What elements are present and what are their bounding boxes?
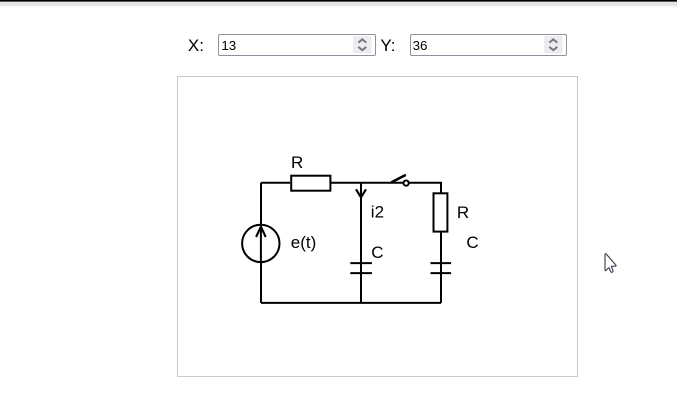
X input spinner	[353, 36, 372, 54]
wire top horizontal to right corner	[330, 182, 442, 184]
wire left branch lower	[260, 262, 262, 303]
svg-text:R: R	[457, 203, 469, 222]
svg-text:R: R	[291, 153, 303, 172]
label Y:	[380, 37, 395, 54]
source U1 circle e(t)	[242, 225, 279, 262]
svg-text:C: C	[466, 233, 478, 252]
Y number input	[410, 34, 567, 56]
svg-text:i2: i2	[371, 203, 384, 222]
wire right branch upper	[440, 183, 442, 194]
switch S1 lever	[391, 175, 406, 183]
wire left branch upper	[260, 183, 262, 225]
wire top-left horizontal	[261, 182, 290, 184]
capacitor C2 plate bottom (right)	[431, 272, 452, 274]
resistor R2 (right, vertical)	[434, 193, 448, 231]
svg-text:C: C	[371, 243, 383, 262]
wire middle branch	[360, 183, 362, 303]
resistor R1 (top, horizontal)	[291, 176, 330, 191]
capacitor C1 plate bottom (middle)	[350, 272, 372, 274]
capacitor C1 plate top (middle)	[350, 262, 372, 264]
switch S1 contact circle	[404, 181, 409, 186]
top window strip	[0, 0, 677, 8]
source arrow shaft	[260, 227, 262, 264]
wire bottom horizontal	[261, 302, 441, 304]
capacitor C2 plate top (right)	[431, 262, 452, 264]
schematic panel frame	[177, 76, 578, 377]
mouse cursor	[605, 254, 616, 273]
label X:	[188, 37, 204, 54]
svg-text:e(t): e(t)	[291, 233, 317, 252]
current arrow i2 head	[356, 189, 366, 197]
wire right branch lower	[440, 232, 442, 303]
X number input	[218, 34, 375, 56]
Y input spinner	[544, 36, 563, 54]
source arrowhead	[256, 227, 266, 237]
